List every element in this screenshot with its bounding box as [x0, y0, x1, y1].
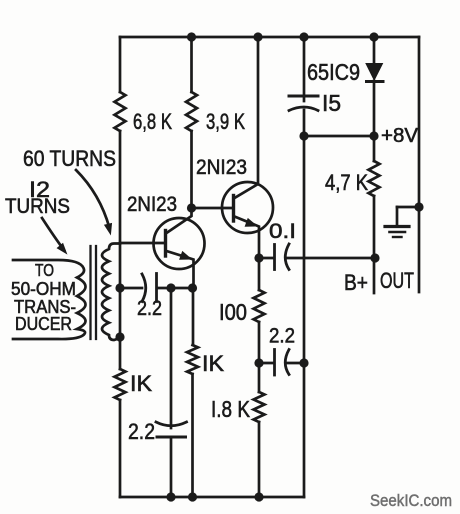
- svg-text:2NI23: 2NI23: [196, 156, 247, 179]
- svg-text:OUT: OUT: [380, 268, 414, 293]
- svg-text:DUCER: DUCER: [15, 314, 72, 334]
- svg-text:TO: TO: [35, 260, 54, 280]
- svg-text:I5: I5: [322, 90, 341, 116]
- svg-text:TURNS: TURNS: [5, 195, 70, 218]
- svg-text:6,8 K: 6,8 K: [133, 109, 172, 134]
- svg-text:IK: IK: [202, 351, 224, 376]
- svg-text:2.2: 2.2: [128, 419, 155, 444]
- svg-text:50-OHM: 50-OHM: [11, 279, 76, 299]
- svg-text:2NI23: 2NI23: [127, 193, 177, 216]
- svg-text:B+: B+: [344, 270, 368, 295]
- svg-text:65IC9: 65IC9: [307, 59, 360, 85]
- svg-text:2.2: 2.2: [269, 325, 295, 348]
- svg-text:0.I: 0.I: [269, 220, 296, 243]
- svg-text:60 TURNS: 60 TURNS: [23, 146, 116, 171]
- svg-text:2.2: 2.2: [137, 297, 162, 320]
- svg-text:+8V: +8V: [381, 125, 419, 147]
- svg-text:I00: I00: [219, 299, 247, 325]
- svg-text:SeekIC.com: SeekIC.com: [370, 491, 452, 510]
- svg-text:I.8 K: I.8 K: [211, 396, 251, 422]
- svg-text:IK: IK: [130, 371, 152, 396]
- svg-text:3,9 K: 3,9 K: [206, 109, 245, 134]
- svg-text:4,7 K: 4,7 K: [325, 170, 368, 195]
